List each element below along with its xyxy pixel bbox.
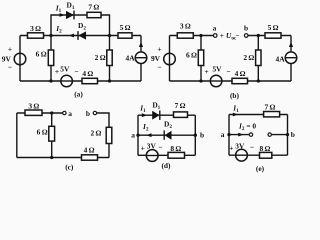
resistor 4-ohm (c) <box>82 146 98 161</box>
wire: 6-ohm rail of (c) <box>51 113 53 158</box>
svg-text:3 Ω: 3 Ω <box>28 101 39 110</box>
svg-text:a: a <box>68 109 72 118</box>
voltage label Uoc (b) <box>220 31 240 42</box>
caption (a) <box>74 90 83 99</box>
svg-text:a: a <box>221 130 225 139</box>
node b (e) <box>286 130 295 139</box>
svg-text:−: − <box>8 63 12 72</box>
svg-text:2 Ω: 2 Ω <box>90 129 101 138</box>
diode D2 (d) <box>164 119 172 139</box>
wire: bottom line of (d) <box>138 154 195 156</box>
svg-text:4A: 4A <box>276 55 286 64</box>
svg-text:4A: 4A <box>126 53 136 62</box>
voltage source 3V (d) <box>141 142 163 162</box>
svg-text:(e): (e) <box>256 164 265 173</box>
svg-text:3 Ω: 3 Ω <box>30 24 41 33</box>
wire: 6-ohm rail of (b) <box>200 36 202 82</box>
resistor 8-ohm (d) <box>168 144 185 158</box>
svg-text:+: + <box>55 67 59 76</box>
resistor 7-ohm (d) <box>174 101 188 117</box>
node junction right of (a) <box>108 34 111 37</box>
svg-text:+: + <box>220 31 224 40</box>
svg-text:b: b <box>291 130 295 139</box>
wire: top line of (c) <box>17 112 63 114</box>
wire: bottom line of (a) <box>20 80 141 82</box>
node junction bottom-right of (b) <box>257 79 260 82</box>
voltage source 9V (b) <box>151 45 175 72</box>
resistor 4-ohm (b) <box>232 69 248 84</box>
current arrow I1 (a) <box>55 4 65 17</box>
wire: 4A rail of (a) <box>140 36 142 82</box>
svg-text:4 Ω: 4 Ω <box>82 69 93 78</box>
node a (e) <box>221 130 231 139</box>
svg-text:−: − <box>226 67 230 76</box>
wire: right rail of (d) <box>194 115 196 155</box>
resistor 2-ohm (a) <box>95 50 113 66</box>
svg-text:8 Ω: 8 Ω <box>170 144 181 153</box>
svg-text:7 Ω: 7 Ω <box>88 2 99 11</box>
wire: top line of (d) <box>138 114 195 116</box>
terminal a (b) <box>213 24 217 38</box>
wire: right rail of (e) <box>287 115 289 156</box>
resistor 2-ohm (c) <box>90 127 111 143</box>
wire: upper diode branch of (a) <box>51 15 110 36</box>
node junction right of (b) <box>257 34 260 37</box>
node junction left of (a) <box>49 34 52 37</box>
wire: left rail of (d) <box>137 115 139 155</box>
svg-text:(c): (c) <box>65 163 74 172</box>
wire: top line left part of (b) <box>170 35 214 37</box>
svg-text:(b): (b) <box>230 91 240 100</box>
svg-text:a: a <box>213 24 217 33</box>
wire: bottom line of (b) <box>170 80 292 82</box>
resistor 3-ohm (b) <box>177 22 193 39</box>
node junction left of (b) <box>199 34 202 37</box>
terminal right of open gap (e) <box>268 133 271 136</box>
svg-text:3 Ω: 3 Ω <box>180 22 191 31</box>
svg-text:I2: I2 <box>55 24 62 35</box>
current arrow I1 (e) <box>232 103 239 116</box>
svg-text:7 Ω: 7 Ω <box>175 101 186 110</box>
svg-text:5V: 5V <box>212 64 222 73</box>
svg-text:−: − <box>157 63 161 72</box>
svg-text:2 Ω: 2 Ω <box>95 53 106 62</box>
svg-text:6 Ω: 6 Ω <box>186 51 197 60</box>
node a (d) <box>131 130 139 139</box>
voltage source 3V (e) <box>229 142 254 162</box>
wire: left rail of (b) <box>169 36 171 82</box>
wire: middle a-b line of (d) <box>138 134 195 136</box>
current source 4A (b) <box>276 42 297 64</box>
wire: top line right part of (b) <box>248 35 291 37</box>
resistor 6-ohm (a) <box>36 50 54 66</box>
diode D2 (a) <box>78 21 86 40</box>
wire: left rail of (c) <box>16 113 18 158</box>
svg-text:6 Ω: 6 Ω <box>36 50 47 59</box>
wire: left rail of (a) <box>19 36 21 82</box>
svg-text:a: a <box>131 130 135 139</box>
node junction bottom-right of (a) <box>108 79 111 82</box>
svg-text:3V: 3V <box>147 142 157 151</box>
svg-text:D2: D2 <box>78 21 86 32</box>
svg-text:(a): (a) <box>74 90 83 99</box>
wire: 2-ohm rail of (a) <box>109 36 111 82</box>
svg-text:D1: D1 <box>152 100 160 111</box>
diode D1 (d) <box>152 100 160 120</box>
svg-text:I2: I2 <box>142 122 149 133</box>
wire: terminal b to 2-ohm of (c) <box>97 113 109 158</box>
resistor 2-ohm (b) <box>243 50 261 66</box>
node junction top of (c) <box>50 111 53 114</box>
svg-text:D1: D1 <box>67 1 75 12</box>
wire: middle line right part of (e) <box>271 134 287 136</box>
resistor 5-ohm (b) <box>265 23 281 38</box>
resistor 5-ohm (a) <box>118 23 132 38</box>
current arrow I2 (a) <box>55 24 74 37</box>
svg-text:−: − <box>74 67 78 76</box>
wire: 6-ohm rail of (a) <box>50 36 52 82</box>
resistor 6-ohm (c) <box>37 126 55 141</box>
resistor 6-ohm (b) <box>186 50 204 66</box>
svg-text:+: + <box>157 45 161 54</box>
terminal a (c) <box>63 109 73 118</box>
wire: 2-ohm rail of (b) <box>257 36 259 82</box>
voltage source 5V (b) <box>204 64 230 86</box>
svg-text:4 Ω: 4 Ω <box>84 146 95 155</box>
resistor 4-ohm (a) <box>82 69 98 84</box>
voltage source 5V (a) <box>55 64 79 86</box>
resistor 3-ohm (c) <box>25 101 42 115</box>
diode D1 (a) <box>66 1 75 20</box>
wire: bottom line of (c) <box>17 157 109 159</box>
resistor 8-ohm (e) <box>259 144 271 158</box>
svg-text:I1: I1 <box>55 4 62 15</box>
svg-text:(d): (d) <box>161 161 171 170</box>
svg-text:I1: I1 <box>139 104 146 115</box>
svg-text:+: + <box>8 45 12 54</box>
svg-text:+: + <box>204 67 208 76</box>
svg-text:5 Ω: 5 Ω <box>120 23 131 32</box>
caption (e) <box>256 164 265 173</box>
node junction bottom-left of (b) <box>199 79 202 82</box>
caption (d) <box>161 161 171 170</box>
svg-text:−: − <box>158 143 162 152</box>
svg-text:6 Ω: 6 Ω <box>37 128 48 137</box>
wire: left rail of (e) <box>228 115 230 156</box>
wire: 4A rail of (b) <box>290 36 292 82</box>
svg-text:2 Ω: 2 Ω <box>243 53 254 62</box>
svg-text:8 Ω: 8 Ω <box>259 144 270 153</box>
svg-text:b: b <box>200 130 204 139</box>
svg-text:b: b <box>244 24 248 33</box>
current arrow I2 (d) <box>142 122 151 137</box>
current source 4A (a) <box>126 42 147 64</box>
terminal b (b) <box>244 24 248 38</box>
svg-text:4 Ω: 4 Ω <box>235 69 246 78</box>
svg-text:−: − <box>235 31 239 40</box>
svg-text:5 Ω: 5 Ω <box>268 23 279 32</box>
svg-text:D2: D2 <box>164 119 172 130</box>
node junction bottom-left of (a) <box>49 79 52 82</box>
caption (b) <box>230 91 240 100</box>
node junction bottom of (c) <box>50 156 53 159</box>
svg-text:−: − <box>250 142 254 151</box>
svg-text:I1: I1 <box>232 103 239 114</box>
resistor 7-ohm (e) <box>264 103 280 117</box>
resistor 7-ohm (a) <box>87 2 101 17</box>
svg-text:7 Ω: 7 Ω <box>264 103 275 112</box>
svg-text:+: + <box>229 144 233 153</box>
resistor 3-ohm (a) <box>28 24 44 38</box>
wire: top line of (e) <box>229 114 288 116</box>
terminal b (c) <box>86 109 97 118</box>
terminal left of open gap (e) <box>249 133 252 136</box>
wire: middle line left part of (e) <box>229 134 249 136</box>
wire: bottom line of (e) <box>229 154 288 156</box>
current arrow I2 = 0 (e) <box>238 121 256 136</box>
svg-text:b: b <box>86 109 90 118</box>
node b (d) <box>194 130 204 139</box>
voltage source 9V (a) <box>2 45 26 72</box>
svg-text:I2 = 0: I2 = 0 <box>238 121 256 132</box>
svg-text:5V: 5V <box>60 64 70 73</box>
current arrow I1 (d) <box>139 104 147 118</box>
svg-text:+: + <box>141 143 145 152</box>
svg-text:3V: 3V <box>235 142 245 151</box>
wire: top node line of (a) <box>20 35 141 37</box>
caption (c) <box>65 163 74 172</box>
